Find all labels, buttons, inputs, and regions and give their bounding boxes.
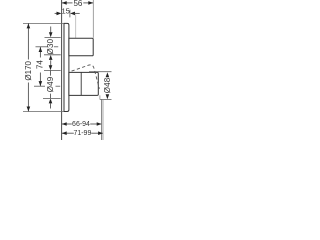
dashed rotated lever outline (69, 65, 99, 89)
svg-text:66-94: 66-94 (72, 121, 90, 128)
plate top extension line (23, 22, 64, 24)
svg-text:71-99: 71-99 (73, 130, 91, 137)
extension line front face (56 dim) (92, 0, 94, 38)
extension connector (99, 95, 101, 99)
svg-text:74: 74 (36, 60, 45, 69)
svg-text:Ø48: Ø48 (103, 77, 112, 93)
dimension 66-94 (62, 99, 102, 140)
escutcheon plate (side view) (64, 23, 69, 111)
svg-text:Ø30: Ø30 (46, 38, 55, 54)
svg-text:Ø49: Ø49 (46, 76, 55, 92)
Ø48 bottom extension bar (100, 98, 112, 100)
upper cylinder (thermostat knob, side) (69, 38, 93, 56)
dimension Ø30 (44, 27, 61, 67)
lower handle body (69, 72, 98, 95)
svg-text:56: 56 (73, 0, 82, 8)
svg-text:15: 15 (62, 6, 70, 15)
dimension Ø49 (43, 65, 61, 108)
svg-text:Ø170: Ø170 (24, 60, 33, 80)
dimension 15 (55, 6, 80, 17)
dimension 56 (62, 0, 93, 8)
handle inner divider (80, 72, 82, 95)
faint extension line x=75.7 (75, 14, 77, 38)
dimension 74 (centre distance) (34, 47, 60, 87)
handle top extension to Ø48 dim (89, 71, 112, 73)
dimension 71-99 (62, 99, 103, 140)
wall line (61, 0, 63, 140)
dimension Ø48 (103, 72, 112, 99)
plate bottom extension line (23, 111, 64, 113)
dimension Ø170 (24, 23, 33, 111)
